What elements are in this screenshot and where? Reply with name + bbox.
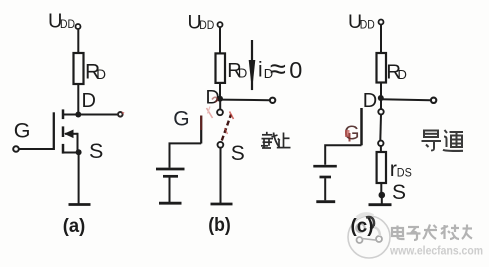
- text jiezhi cutoff (b): [261, 132, 291, 148]
- wire gate (a): [19, 148, 54, 150]
- wire drain line (b): [220, 99, 270, 102]
- wire battery to ground (c): [324, 178, 326, 200]
- svg-text:S: S: [231, 142, 245, 165]
- wire S to ground (c): [381, 195, 383, 204]
- junction S (c): [379, 192, 386, 199]
- switch bottom contact (b): [218, 142, 224, 148]
- label RD (c): [386, 60, 407, 83]
- terminal UDD (b): [218, 22, 223, 27]
- wire switch to ground (b): [220, 148, 222, 204]
- wire gate to battery (c): [325, 145, 361, 165]
- wire source line (a): [63, 152, 78, 154]
- wire RD to D (a): [77, 84, 79, 115]
- svg-text:(b): (b): [208, 215, 231, 236]
- switch top contact (c): [378, 109, 383, 114]
- svg-text:www.elecfans.com: www.elecfans.com: [389, 244, 483, 258]
- ground battery side (b): [159, 202, 182, 205]
- wire UDD to RD (b): [219, 27, 221, 53]
- transistor channel bottom dash (a): [62, 144, 65, 154]
- svg-text:DD: DD: [199, 18, 214, 32]
- wire D to switch (c): [380, 98, 382, 109]
- wire RD to D (b): [219, 83, 221, 99]
- svg-text:(a): (a): [63, 216, 86, 237]
- battery short plate (c): [320, 176, 332, 179]
- svg-text:D: D: [363, 90, 377, 112]
- svg-text:S: S: [89, 139, 103, 163]
- battery short plate (b): [163, 175, 178, 178]
- resistor RD (a): [74, 53, 84, 84]
- wire drain line (c): [381, 98, 431, 101]
- wire battery to ground (b): [169, 178, 171, 203]
- resistor RD (b): [216, 53, 226, 83]
- resistor rDS (c): [377, 152, 386, 183]
- terminal UDD (a): [76, 24, 81, 29]
- gate plate line (b): [200, 116, 202, 144]
- char fa: [423, 225, 437, 240]
- svg-text:D: D: [82, 90, 96, 112]
- char tong: [443, 130, 463, 151]
- ground (a): [69, 203, 91, 206]
- svg-text:(c): (c): [351, 216, 374, 237]
- terminal drain end (c): [431, 98, 436, 103]
- char jie: [261, 132, 280, 148]
- text daotong conducting (c): [422, 130, 464, 151]
- char you: [462, 225, 472, 240]
- transistor body arrow (a): [64, 130, 78, 139]
- label rDS (c): [390, 157, 412, 181]
- junction D (a): [75, 112, 81, 118]
- label RD (b): [227, 60, 247, 82]
- char zhi: [277, 133, 291, 148]
- wire source to ground (a): [78, 153, 80, 205]
- watermark text dianzifashaoyou: [392, 225, 472, 241]
- char zi: [407, 227, 421, 240]
- wire RD to D (c): [380, 83, 382, 99]
- char shao: [441, 225, 459, 240]
- wire gate to battery (b): [170, 143, 202, 167]
- transistor channel middle dash (a): [62, 126, 65, 137]
- svg-text:G: G: [173, 107, 189, 130]
- terminal drain end (a): [118, 112, 123, 117]
- junction S (a): [76, 149, 82, 155]
- label UDD (b): [188, 11, 215, 33]
- terminal drain end (b): [270, 98, 275, 103]
- svg-text:i: i: [258, 59, 263, 82]
- watermark logo elecfans: [348, 214, 390, 258]
- svg-text:0: 0: [289, 57, 302, 83]
- red artifact (a): [122, 112, 125, 115]
- ground (c): [369, 203, 392, 206]
- switch open blade red dashes (b): [222, 112, 234, 141]
- label node G red (c): [344, 122, 360, 144]
- svg-text:S: S: [392, 181, 406, 204]
- wire UDD to RD (a): [77, 29, 79, 53]
- svg-text:DS: DS: [397, 166, 412, 180]
- label RD (a): [85, 60, 106, 83]
- char dao: [422, 131, 442, 151]
- battery long plate (c): [313, 165, 337, 168]
- svg-text:D: D: [238, 66, 247, 81]
- transistor gate line (a): [53, 112, 55, 150]
- svg-text:D: D: [96, 67, 106, 82]
- wire D to switch (b): [219, 99, 221, 109]
- wire rDS to S (c): [380, 183, 382, 195]
- terminal UDD (c): [379, 20, 384, 25]
- wire switch to rDS (c): [380, 146, 382, 152]
- switch top contact (b): [217, 109, 223, 115]
- gate plate line (c): [360, 108, 363, 145]
- switch closed blade (c): [379, 115, 382, 141]
- switch bottom contact (c): [378, 141, 383, 146]
- label UDD (a): [48, 10, 75, 32]
- char dian: [392, 226, 405, 240]
- terminal G (a): [13, 146, 19, 152]
- resistor RD (c): [377, 53, 387, 83]
- svg-text:D: D: [398, 67, 407, 82]
- svg-text:≈: ≈: [270, 54, 286, 86]
- junction D (b): [217, 96, 223, 102]
- battery long plate (b): [156, 168, 185, 171]
- svg-text:DD: DD: [60, 17, 75, 31]
- wire UDD to RD (c): [380, 25, 382, 54]
- ground source side (b): [211, 203, 233, 206]
- svg-text:G: G: [14, 119, 31, 143]
- ground battery side (c): [316, 200, 335, 203]
- label iD approx 0 (b): [258, 54, 302, 86]
- junction D (c): [378, 95, 384, 101]
- wire body to source (a): [77, 133, 79, 153]
- transistor channel top dash (a): [62, 109, 65, 119]
- current arrow iD (b): [249, 40, 256, 91]
- label UDD (c): [348, 11, 375, 33]
- red artifact streaks (b): [207, 97, 218, 118]
- svg-text:DD: DD: [360, 18, 375, 32]
- wire drain line (a): [63, 114, 119, 116]
